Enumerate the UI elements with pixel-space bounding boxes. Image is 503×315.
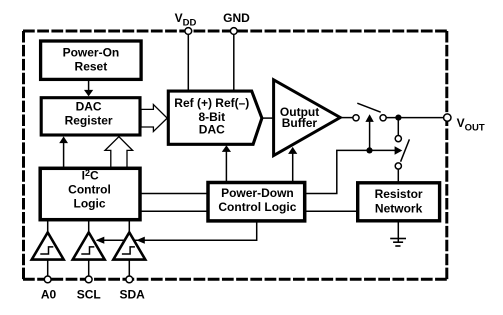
pin VOUT (444, 114, 451, 121)
wire SCL buffer to pin (88, 260, 90, 280)
wire A0 buffer to pin (47, 260, 49, 280)
switch SW1 control arrow (365, 114, 373, 150)
buffer SDA (schmitt trigger) (113, 232, 145, 259)
pin GND (230, 28, 237, 35)
svg-text:VDD: VDD (175, 11, 197, 28)
wire output node down to switch SW2 (397, 118, 399, 136)
wire SDA buffer to pin (128, 260, 130, 280)
wire I2C to Power-Down lower (140, 210, 208, 212)
svg-text:Buffer: Buffer (282, 116, 318, 130)
arrow into SCL buffer (96, 237, 105, 244)
bus arrow I2C to DAC Register (105, 137, 133, 170)
pin SDA (126, 276, 133, 283)
junction output node (395, 115, 401, 121)
junction control rail (366, 147, 372, 153)
pin VDD (185, 28, 192, 35)
svg-text:VOUT: VOUT (457, 116, 485, 134)
svg-text:Control: Control (68, 183, 111, 197)
wire I2C to SCL buffer (88, 220, 90, 233)
pin A0 (44, 276, 51, 283)
bus arrow DAC Register to DAC (141, 105, 167, 132)
wire Output Buffer to switch SW1 (340, 117, 353, 119)
control rail Power-Down to switches (305, 150, 395, 193)
svg-text:I2C: I2C (82, 168, 99, 183)
wire DAC to Output Buffer (261, 117, 274, 119)
wire I2C to Power-Down upper (140, 193, 208, 195)
wire I2C to DAC Register (arrow) (59, 136, 68, 168)
svg-text:SCL: SCL (77, 287, 101, 301)
wire SW2 to Resistor Network (397, 169, 399, 183)
svg-text:A0: A0 (41, 287, 57, 301)
switch SW2 contacts (395, 136, 401, 142)
wire Power-Down to DAC (arrow) (222, 145, 231, 183)
svg-text:Network: Network (375, 202, 423, 216)
svg-text:Ref (+) Ref(–): Ref (+) Ref(–) (174, 96, 249, 110)
switch SW1 lever (357, 103, 380, 112)
svg-text:Reset: Reset (75, 60, 108, 74)
op-amp Output Buffer (274, 80, 341, 156)
svg-text:Power-On: Power-On (63, 45, 120, 59)
switch SW2 lever (401, 139, 410, 161)
svg-text:DAC: DAC (199, 123, 225, 137)
wire I2C to SDA buffer (128, 220, 130, 233)
wire GND to DAC (233, 31, 235, 92)
pin SCL (85, 276, 92, 283)
block 8-bit DAC (168, 91, 262, 144)
block Power-Down Control Logic (208, 183, 305, 221)
arrow into SDA buffer (136, 237, 145, 244)
wire I2C to A0 buffer (47, 220, 49, 233)
svg-text:GND: GND (223, 11, 250, 25)
svg-text:DAC: DAC (76, 100, 102, 114)
svg-text:Logic: Logic (74, 197, 106, 211)
svg-text:Register: Register (65, 114, 113, 128)
switch SW1 contacts (353, 115, 359, 121)
wire Power-Down to SCL/SDA buffers (97, 221, 257, 240)
block I2C Control Logic (40, 168, 140, 219)
block DAC Register (41, 98, 140, 135)
svg-text:Resistor: Resistor (375, 187, 423, 201)
chip boundary dashed border (23, 31, 447, 279)
block Resistor Network (358, 183, 440, 221)
svg-text:SDA: SDA (120, 287, 146, 301)
wire Power-Down to Resistor Network (305, 210, 358, 212)
buffer A0 (schmitt trigger) (32, 232, 64, 259)
wire Power-Down to Output Buffer (arrow) (288, 147, 297, 183)
ground symbol (390, 221, 406, 246)
buffer SCL (schmitt trigger) (73, 232, 105, 259)
wire SW1 to VOUT pin (386, 117, 447, 119)
wire VDD to DAC (187, 31, 189, 92)
svg-text:Power-Down: Power-Down (221, 186, 294, 200)
switch SW2 control arrow (395, 146, 403, 155)
svg-text:Control Logic: Control Logic (218, 200, 296, 214)
wire POR to DAC Register (arrow) (84, 79, 93, 96)
block Power-On Reset (41, 41, 142, 79)
